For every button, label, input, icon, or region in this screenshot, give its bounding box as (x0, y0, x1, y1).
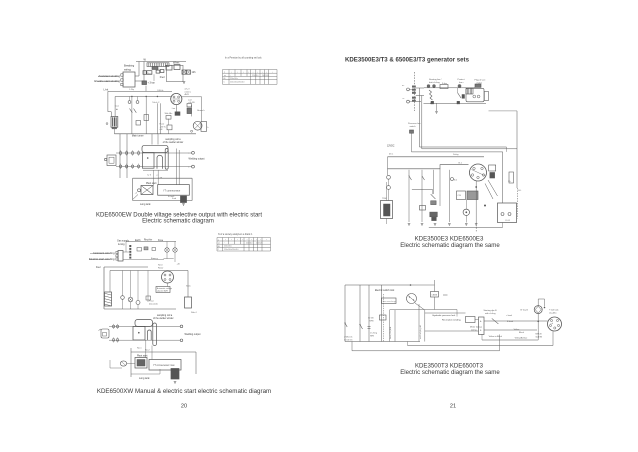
svg-text:Protect: Protect (458, 78, 465, 81)
wire row bottom (424, 102, 487, 104)
svg-text:+: + (266, 239, 267, 241)
junction (116, 109, 117, 110)
ground (421, 224, 424, 226)
wire right (187, 271, 189, 298)
wire gauge loop (538, 299, 544, 307)
connector CN4 (99, 329, 110, 338)
coil T2 (430, 212, 438, 217)
switch S1b (134, 109, 137, 113)
svg-text:Long tank: Long tank (139, 377, 150, 380)
wire left inner (114, 97, 116, 117)
switch S6 (422, 176, 425, 180)
svg-text:Electric schematic diagram the: Electric schematic diagram the same (400, 242, 500, 249)
svg-text:Meter lockup: Meter lockup (470, 326, 483, 329)
lamp H10 (387, 186, 391, 190)
svg-text:+: + (247, 239, 248, 241)
svg-text:+: + (251, 239, 252, 241)
svg-text:NFB: NFB (370, 335, 375, 337)
wire (433, 170, 435, 194)
wire dashed right (516, 188, 518, 219)
wire bus D (388, 156, 485, 158)
carb heater CARB (431, 292, 439, 298)
svg-text:Fuel: Fuel (96, 267, 101, 269)
wire (434, 280, 436, 292)
svg-text:Electric start winding: Electric start winding (94, 79, 120, 83)
lamp H3 (128, 101, 131, 104)
wire bus E (388, 165, 469, 169)
svg-text:YT connecessor: YT connecessor (163, 189, 180, 192)
wire (133, 177, 193, 179)
svg-text:12VDC: 12VDC (387, 146, 395, 148)
svg-text:B lead: B lead (507, 321, 514, 323)
svg-text:Plant start: Plant start (146, 182, 157, 185)
svg-text:Rect: Rect (147, 72, 152, 75)
wire bus 2 (408, 345, 554, 347)
wire bus (482, 339, 538, 341)
switch S11 (458, 93, 462, 98)
wire bus 3 (352, 350, 500, 352)
svg-text:+: + (272, 71, 273, 73)
wire bus (126, 241, 176, 243)
coil base (112, 127, 117, 129)
terminal (138, 189, 141, 192)
wire (175, 105, 177, 112)
rotor G2 (162, 271, 174, 283)
wire (425, 312, 466, 314)
wire diag (485, 184, 493, 200)
wire (456, 310, 458, 317)
svg-text:Starting dyn B: Starting dyn B (484, 309, 498, 312)
wire (386, 182, 388, 201)
wire (119, 134, 121, 178)
regulator U1 (147, 71, 152, 75)
wire gauge drop (537, 314, 539, 340)
fuel pump blob 2 (171, 369, 179, 380)
wire (153, 170, 155, 185)
svg-text:a b: a b (551, 323, 554, 325)
wire (387, 157, 389, 175)
wire (481, 334, 483, 340)
wire (388, 179, 390, 185)
wire (167, 283, 169, 287)
wire vertical (344, 285, 346, 342)
terminal J3 (180, 325, 183, 328)
terminal strip X1 (147, 63, 169, 67)
svg-text:N of a society analyzers a bl: N of a society analyzers a blank 1 (218, 233, 253, 236)
ignition coil T3 (467, 191, 478, 200)
wire dashed down (475, 223, 477, 232)
lamp H9 (387, 175, 391, 179)
wire bus B (115, 96, 171, 98)
svg-text:tuning: tuning (118, 243, 125, 246)
svg-text:~: ~ (230, 75, 231, 77)
relay K2 (167, 125, 172, 130)
fuse F3 (440, 85, 448, 89)
wire long right (502, 152, 504, 203)
junction (537, 321, 539, 323)
wire long 1 (420, 146, 507, 148)
diode D5 (431, 101, 434, 104)
svg-text:Rub 4: Rub 4 (191, 312, 197, 314)
junction (146, 96, 147, 97)
wire long 2 (422, 148, 517, 150)
terminal B2 (451, 178, 454, 181)
svg-text:BL: BL (218, 246, 220, 248)
wire (157, 170, 159, 184)
pin 1 (121, 74, 123, 76)
wire (130, 348, 132, 377)
wire (122, 271, 124, 296)
rectifier D1 (143, 71, 146, 75)
lamp H5 (165, 248, 169, 252)
svg-text:1-Wq: 1-Wq (129, 89, 135, 91)
svg-text:Beam h: Beam h (197, 110, 205, 112)
wire (90, 252, 110, 254)
wire (98, 75, 118, 77)
lamp H2 (187, 70, 191, 74)
switch S5 (409, 176, 412, 180)
svg-text:and fuel plug off: and fuel plug off (420, 325, 422, 339)
svg-text:a-: a- (403, 98, 405, 100)
wire (130, 271, 132, 298)
connector CN3 (118, 251, 123, 262)
capacitor C7 (146, 296, 151, 300)
svg-text:Hydraulic pressure lock: Hydraulic pressure lock (433, 314, 457, 317)
wire drop b (151, 346, 153, 360)
terminal A (407, 88, 410, 91)
wire (137, 271, 139, 301)
svg-text:21: 21 (450, 404, 456, 410)
battery BT1 (158, 185, 190, 196)
wire (157, 134, 159, 145)
indicator lamp P1 (427, 85, 430, 88)
resistor R1 (144, 115, 149, 121)
switch S8 (345, 323, 347, 327)
wire (386, 219, 388, 225)
wire bottom bus (429, 226, 503, 228)
regulator U5 (489, 165, 496, 171)
lamp H4 (136, 101, 139, 104)
svg-text:of the welder winder: of the welder winder (163, 141, 184, 144)
svg-text:In a Pension by all counting s: In a Pension by all counting set lock (225, 56, 262, 59)
svg-text:Rect-fer: Rect-fer (144, 238, 152, 241)
wire dashed (383, 294, 385, 342)
svg-text:wh-t /: wh-t / (185, 88, 191, 91)
wire drop pair a (176, 149, 178, 185)
junction (131, 96, 132, 97)
svg-text:+: + (242, 239, 243, 241)
wire bus F (412, 151, 503, 153)
wire weld B2 (109, 339, 180, 341)
wire drop pair b (178, 150, 180, 185)
svg-text:Assistant winding: Assistant winding (93, 251, 115, 255)
wire weld A2 (109, 325, 180, 327)
wire (126, 134, 128, 178)
wire (168, 119, 170, 125)
sensor MS1 (432, 217, 437, 220)
svg-text:50.06 /16: 50.06 /16 (344, 339, 353, 341)
svg-text:switch: switch (410, 125, 417, 128)
svg-text:Fuse: Fuse (149, 301, 155, 303)
wire (421, 170, 423, 222)
wire left (132, 178, 134, 200)
wire row (424, 87, 475, 89)
svg-text:Lua 1: Lua 1 (172, 108, 178, 110)
wire (389, 310, 391, 342)
pressure switch S4 (410, 130, 414, 133)
switch S1 (130, 109, 133, 113)
svg-text:Electric schematic diagram: Electric schematic diagram (142, 218, 214, 224)
svg-text:FL.R: FL.R (506, 220, 511, 222)
diode bridge DB1 (142, 81, 147, 85)
ground spark (465, 224, 468, 226)
svg-text:Rotor: Rotor (158, 267, 164, 270)
svg-text:220x110x220x110: 220x110x220x110 (224, 249, 238, 251)
wire (506, 147, 508, 152)
wire bottom (133, 200, 193, 202)
terminal pad group A (412, 86, 416, 94)
junction (157, 96, 158, 97)
wire drop a (145, 340, 147, 358)
svg-text:Main turner: Main turner (132, 135, 144, 138)
wire (390, 309, 458, 311)
svg-text:Flag of use: Flag of use (475, 80, 487, 82)
wire weld B (116, 165, 192, 167)
svg-text:av: av (218, 243, 220, 245)
ignition switch S7 (407, 294, 417, 304)
svg-text:+ lead: + lead (506, 315, 513, 317)
svg-text:Wal-4A+: Wal-4A+ (165, 112, 174, 115)
battery BT2 (149, 360, 181, 371)
terminal pad grid (120, 150, 140, 169)
wire (195, 352, 197, 374)
svg-text:+: + (231, 239, 232, 241)
wire (145, 97, 147, 134)
svg-text:a: a (218, 239, 219, 241)
svg-text:AVR: AVR (185, 93, 190, 96)
starter motor M2 (141, 186, 153, 195)
wire (174, 242, 176, 248)
generator G1 (171, 93, 182, 104)
wire top bus (136, 61, 186, 63)
capacitor C9 (368, 326, 371, 328)
svg-text:Gas overcharge: Gas overcharge (383, 300, 396, 303)
relay K4 (498, 203, 517, 223)
svg-text:Wires: Wires (173, 61, 180, 64)
wire (499, 335, 501, 351)
connector pin strip CN3b (129, 245, 131, 259)
wire (147, 271, 149, 303)
wire (418, 304, 420, 342)
wire (448, 170, 450, 222)
key switch S3 (120, 361, 126, 366)
charger block (509, 172, 514, 183)
svg-text:+: + (256, 239, 257, 241)
ground (174, 382, 177, 384)
wire (394, 310, 396, 342)
svg-text:CDI: CDI (458, 195, 462, 197)
svg-text:Fuse-y: Fuse-y (151, 258, 159, 260)
wire (411, 284, 435, 286)
wire (407, 342, 409, 346)
svg-text:220/110: 220/110 (246, 243, 252, 245)
svg-text:Starting fan /: Starting fan / (429, 78, 442, 81)
wire (484, 329, 537, 331)
terminal J4 (180, 339, 183, 342)
meter M2 (128, 297, 133, 302)
wire (123, 251, 129, 253)
svg-text:+ 3 tax: + 3 tax (148, 82, 156, 85)
wire right drop (516, 111, 518, 188)
pin 3 (121, 83, 123, 85)
svg-text:220x110x: 220x110x (224, 246, 232, 248)
wire (416, 101, 421, 103)
svg-text:Fred: Fred (160, 76, 165, 79)
terminal (191, 130, 193, 132)
wire (122, 299, 124, 309)
svg-text:Tek-k 2: Tek-k 2 (152, 102, 160, 104)
terminal pad group B (412, 97, 416, 102)
relay K3 (185, 297, 192, 308)
lamp H8 (136, 301, 140, 305)
wire pair a (156, 103, 158, 134)
wire top bus T3 (345, 284, 411, 286)
svg-text:sampling coil a: sampling coil a (157, 315, 173, 317)
svg-text:1 Lifting: 1 Lifting (370, 332, 377, 335)
svg-text:wiring: wiring (124, 68, 131, 72)
switch S9 (360, 325, 363, 330)
wire (475, 319, 479, 321)
svg-text:Electric switch lock: Electric switch lock (375, 289, 395, 292)
svg-text:20: 20 (181, 404, 187, 410)
wire left outer (107, 91, 109, 111)
wire (457, 88, 459, 93)
svg-text:+: + (260, 239, 261, 241)
svg-text:+: + (225, 239, 226, 241)
wire (166, 242, 168, 248)
svg-text:Recreation winding: Recreation winding (442, 319, 461, 322)
svg-text:50A 9B: 50A 9B (536, 335, 543, 338)
wire (137, 305, 139, 310)
wire (425, 330, 479, 332)
breaker NFB (382, 298, 397, 304)
wire bottom bus (115, 133, 197, 135)
terminal J2 (192, 165, 195, 168)
wire (159, 369, 161, 374)
wire (151, 134, 153, 145)
svg-text:220x110x: 220x110x (230, 78, 238, 80)
wire (131, 351, 196, 353)
junction (457, 103, 459, 105)
wire (110, 367, 122, 369)
svg-text:Yellow: Yellow (514, 329, 520, 331)
svg-text:Assistant winding: Assistant winding (98, 74, 120, 78)
svg-text:adjuster AVR: adjuster AVR (157, 290, 169, 293)
wire (143, 169, 168, 171)
wire stub (443, 294, 448, 296)
winding block W1 (466, 317, 476, 323)
capacitor C8 (420, 206, 426, 211)
wire (416, 95, 424, 97)
svg-text:+4h 9L: +4h 9L (160, 126, 167, 128)
wire (125, 242, 127, 253)
resistor R2 zigzag (429, 90, 433, 100)
ground (434, 224, 437, 226)
wire plug line (475, 181, 477, 223)
svg-text:Long tank: Long tank (140, 203, 151, 206)
ground (435, 112, 438, 114)
wire bus (104, 266, 148, 268)
wire (137, 97, 139, 101)
wire (421, 96, 423, 149)
svg-text:Black: Black (519, 332, 524, 334)
svg-text:+4h: +4h (177, 264, 180, 266)
terminal (106, 123, 108, 125)
svg-text:240/120: 240/120 (256, 243, 263, 245)
svg-text:Yellow(B) blue: Yellow(B) blue (515, 337, 529, 339)
wire (190, 105, 192, 117)
fuel pump blob (181, 196, 187, 202)
wire vertical (368, 285, 370, 342)
transformer TR2 (133, 320, 157, 346)
wire (388, 189, 390, 200)
svg-text:+: + (266, 71, 267, 73)
svg-text:Pressure fan: Pressure fan (408, 122, 421, 125)
svg-text:Welding output: Welding output (185, 333, 201, 336)
connector CN2 (104, 155, 116, 166)
svg-text:with ch-ling: with ch-ling (485, 312, 496, 315)
wire (434, 297, 436, 310)
svg-text:Electric start winding: Electric start winding (89, 257, 115, 261)
transformer TR1 (142, 145, 168, 169)
terminal pad grid 2 (113, 324, 119, 343)
svg-text:h: h (207, 127, 208, 129)
wire (465, 200, 467, 210)
contact a (473, 95, 476, 98)
wire (138, 62, 140, 77)
svg-text:220/110: 220/110 (252, 75, 258, 77)
round connector CN6 (548, 317, 562, 331)
wire (174, 252, 176, 262)
wire mid bus (412, 189, 433, 191)
parts table T1 (223, 56, 278, 84)
svg-text:a: a (224, 72, 225, 74)
svg-text:+: + (237, 71, 238, 73)
svg-text:+: + (253, 71, 254, 73)
AVR block U3 (156, 287, 172, 293)
svg-text:12h: 12h (192, 71, 197, 74)
svg-text:of the welder winder: of the welder winder (153, 317, 174, 320)
controller U4 (466, 88, 484, 102)
rectifier D2 (175, 112, 180, 116)
wire (409, 88, 412, 90)
wire vertical (359, 285, 361, 342)
svg-text:~: ~ (224, 243, 225, 245)
lamp H7 (121, 296, 125, 300)
wire (502, 223, 504, 228)
svg-text:extens: extens (185, 90, 192, 93)
svg-text:Breaking: Breaking (124, 64, 135, 68)
wire (436, 103, 438, 111)
lamp H6 (173, 248, 177, 252)
svg-text:2 Wheels: 2 Wheels (344, 337, 352, 339)
wire dashed trunk (414, 72, 416, 111)
junction (544, 307, 546, 309)
junction (475, 186, 477, 188)
svg-text:240/120: 240/120 (262, 75, 269, 77)
aux block (484, 92, 488, 101)
relay K2b (201, 122, 207, 132)
